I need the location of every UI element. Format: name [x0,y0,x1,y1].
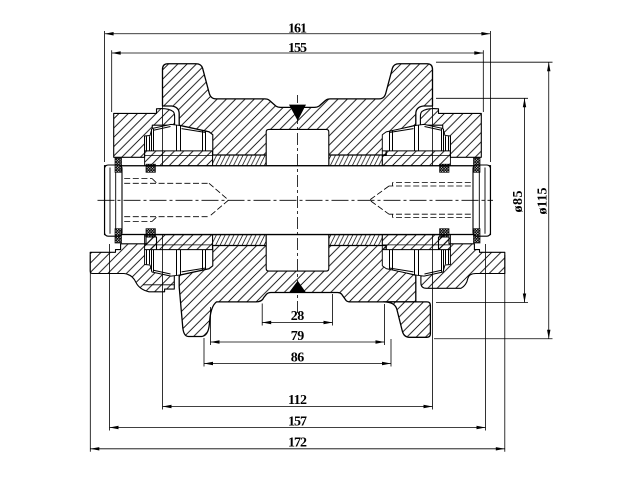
vertical centerline [297,95,299,313]
end collar right (white) [473,165,490,236]
bushing sleeve bottom-right (steep hatch) [329,235,383,246]
dim 155 extension lines [112,50,484,112]
shaft (white) [105,166,491,235]
roller body lower half (section, hatched) [179,246,416,337]
dim 28 extension lines [262,294,332,326]
svg-text:155: 155 [288,41,307,56]
bearing inner race hub top-right (hatched) [382,151,450,166]
bushing sleeve top-left (steep hatch) [213,155,267,166]
bushing sleeve top-right (steep hatch) [329,155,383,166]
dim 155 line [112,52,484,54]
lower bracket left [90,237,174,292]
DIMENSIONS [90,31,552,452]
upper retainer bracket left [114,109,175,158]
svg-text:ø85: ø85 [511,191,526,213]
seal ring top-right inner (crosshatch) [440,164,449,172]
upper retainer bracket right [420,109,481,158]
svg-text:28: 28 [291,309,305,324]
dimension texts [288,21,551,450]
svg-text:161: 161 [288,21,307,36]
dim 112 line [163,406,433,408]
horizontal centerline [98,199,494,201]
dim dia115 extension lines [434,62,553,339]
svg-text:ø115: ø115 [536,188,551,215]
dim 79 line [211,341,385,343]
dim 86 extension lines [204,338,391,367]
svg-text:79: 79 [291,329,305,344]
bearing inner race hub top-left (hatched) [145,151,213,166]
seal ring top-left inner (crosshatch) [146,164,155,172]
svg-text:112: 112 [288,393,307,408]
bearing pocket bottom-right (rollers) [382,250,450,276]
bearing inner race hub bottom-left (hatched) [145,235,213,250]
bushing sleeve bottom-left (steep hatch) [213,235,267,246]
center boss top (white) [266,129,329,165]
svg-text:172: 172 [288,436,307,451]
lower bracket right [421,237,505,288]
seal ring bottom-right outer (crosshatch) [474,229,481,243]
dim dia85 line [524,98,526,302]
dim 28 line [262,322,332,324]
bearing pocket top-right (rollers) [382,124,450,150]
end collar left (white) [105,165,122,236]
seal ring bottom-left outer (crosshatch) [115,229,122,243]
lower mounting foot right [384,302,431,337]
dim 79 extension lines [211,304,385,345]
dim dia85 extension lines [436,98,528,302]
dim 172 line [90,448,505,450]
seal ring top-right outer (crosshatch) [474,158,481,172]
dim 157 extension lines [110,244,486,431]
dim dia115 line [548,62,550,339]
bearing pocket bottom-left (rollers) [145,250,213,276]
dim 172 extension lines [90,255,505,452]
dim 161 extension lines [105,31,491,162]
shaft hidden bore left (dashed) [107,179,229,222]
dim 112 extension lines [163,106,433,410]
dim 161 line [105,33,491,35]
svg-text:86: 86 [291,350,305,365]
weld symbol triangle bottom [289,281,306,293]
seal ring top-left outer (crosshatch) [115,158,122,172]
weld symbol triangle top [289,105,306,121]
seal ring bottom-right inner (crosshatch) [440,229,449,237]
bearing inner race hub bottom-right (hatched) [382,235,450,250]
svg-text:157: 157 [288,414,307,429]
dim 86 line [204,363,391,365]
roller body upper half (section, hatched) [163,64,433,155]
bearing pocket top-left (rollers) [145,124,213,150]
center boss bottom (white) [266,235,329,272]
seal ring bottom-left inner (crosshatch) [146,229,155,237]
shaft hidden bore right (dashed) [370,183,489,218]
dimension arrowheads [90,32,550,450]
dim 157 line [110,427,486,429]
inner race split lines [145,156,451,245]
bracket lip edge line [143,284,174,286]
